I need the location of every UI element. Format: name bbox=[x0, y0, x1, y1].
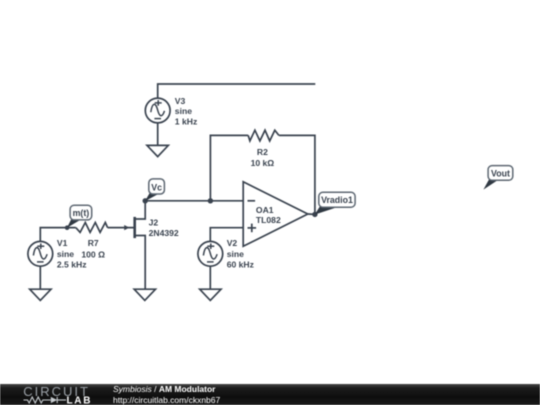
svg-text:Vc: Vc bbox=[151, 182, 162, 192]
svg-text:TL082: TL082 bbox=[256, 215, 281, 225]
svg-text:100 Ω: 100 Ω bbox=[81, 249, 105, 259]
svg-text:60 kHz: 60 kHz bbox=[227, 260, 254, 270]
svg-text:sine: sine bbox=[57, 249, 74, 259]
svg-text:V3: V3 bbox=[175, 96, 186, 106]
svg-text:sine: sine bbox=[227, 249, 244, 259]
svg-text:1 kHz: 1 kHz bbox=[175, 116, 197, 126]
svg-text:2.5 kHz: 2.5 kHz bbox=[57, 260, 87, 270]
svg-text:R2: R2 bbox=[257, 147, 268, 157]
svg-text:V2: V2 bbox=[227, 238, 238, 248]
svg-text:Vout: Vout bbox=[491, 168, 510, 178]
svg-text:Vradio1: Vradio1 bbox=[321, 195, 353, 205]
svg-text:V1: V1 bbox=[57, 238, 68, 248]
svg-text:2N4392: 2N4392 bbox=[149, 228, 179, 238]
svg-text:R7: R7 bbox=[88, 238, 99, 248]
svg-text:10 kΩ: 10 kΩ bbox=[251, 158, 275, 168]
svg-text:J2: J2 bbox=[149, 218, 159, 228]
svg-text:m(t): m(t) bbox=[73, 208, 90, 218]
svg-text:sine: sine bbox=[175, 106, 192, 116]
svg-text:OA1: OA1 bbox=[256, 205, 274, 215]
